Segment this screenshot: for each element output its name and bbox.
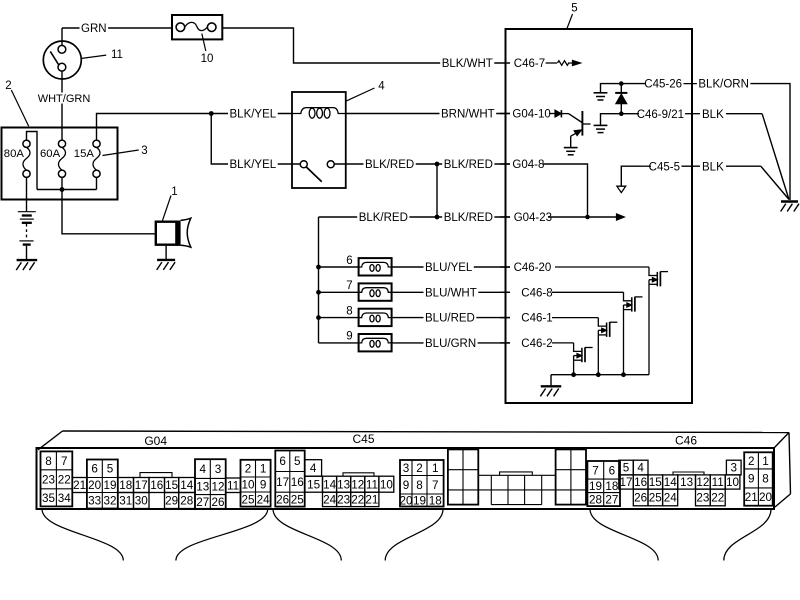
wire bus to injector 9	[319, 342, 359, 344]
svg-text:20: 20	[759, 491, 773, 504]
connector C46 pin 10	[725, 475, 740, 489]
label 11	[111, 49, 123, 61]
pin C45-26	[624, 79, 701, 91]
svg-text:8: 8	[45, 455, 52, 468]
svg-text:13: 13	[337, 478, 350, 491]
node rail junction C46-1	[596, 372, 601, 377]
svg-text:35: 35	[42, 492, 56, 505]
pin C46-9/21	[624, 109, 701, 121]
svg-text:2: 2	[5, 80, 11, 92]
pin C46-8	[500, 287, 624, 299]
transistor Q1	[569, 111, 591, 147]
label 3	[141, 145, 147, 157]
label C46	[675, 434, 697, 448]
svg-text:60A: 60A	[40, 148, 61, 160]
wire C45-5 stub	[621, 166, 641, 186]
connector C45 key tab	[343, 473, 374, 476]
connector C46 pin 11	[710, 475, 725, 489]
svg-text:BLU/RED: BLU/RED	[425, 313, 475, 325]
pin C46-20	[500, 262, 649, 274]
wire BLK/YEL (15A fuse to relay coil)	[97, 114, 293, 141]
connector C46 pin 22	[710, 489, 725, 506]
wire battery feed	[26, 177, 28, 211]
svg-text:9: 9	[748, 473, 755, 486]
svg-text:22: 22	[351, 494, 364, 507]
connector G04 pin 30	[134, 493, 150, 509]
label BLK/RED (ECU side lower)	[442, 211, 494, 224]
connector G04 pin 28	[179, 493, 195, 509]
svg-text:7: 7	[592, 464, 599, 477]
fuse 80A	[23, 140, 30, 177]
svg-text:4: 4	[310, 462, 317, 475]
label BLU/RED	[424, 312, 477, 325]
connector G04 key tab	[140, 473, 172, 478]
connector G04 pin 29	[165, 493, 179, 509]
svg-text:11: 11	[366, 478, 378, 491]
label 8	[346, 305, 352, 317]
svg-text:9: 9	[403, 479, 410, 492]
svg-text:25: 25	[291, 494, 305, 507]
label 60A	[40, 148, 61, 160]
connector G04 pin 17	[134, 478, 150, 493]
svg-text:16: 16	[150, 479, 163, 492]
fuse 10	[172, 15, 222, 39]
svg-text:2: 2	[245, 463, 252, 476]
svg-text:20: 20	[88, 479, 102, 492]
svg-text:26: 26	[276, 494, 289, 507]
label 7	[346, 280, 352, 292]
svg-text:80A: 80A	[4, 148, 25, 160]
svg-text:C45-5: C45-5	[649, 161, 680, 173]
ground (body, right)	[781, 202, 799, 212]
svg-text:22: 22	[711, 492, 724, 505]
connector C46 pin 5	[619, 460, 634, 475]
relay 4	[292, 92, 346, 188]
connector C46 pin 24	[663, 489, 678, 506]
wire G04 harness right tail	[176, 509, 268, 561]
connector C45 pin 22	[351, 492, 365, 506]
svg-text:BLK/RED: BLK/RED	[444, 212, 493, 224]
label WHT/GRN	[36, 93, 91, 106]
arrow (C46-7)	[573, 61, 581, 66]
injector 6	[359, 258, 392, 275]
svg-text:12: 12	[351, 478, 364, 491]
node C46-9/21 junction	[619, 111, 624, 116]
label 11 leader	[82, 55, 107, 58]
svg-text:11: 11	[227, 479, 239, 492]
connector C46 pin 25	[648, 489, 663, 506]
wire BLU/YEL (injector to ECU C46-20)	[392, 266, 510, 268]
svg-text:15: 15	[165, 479, 179, 492]
wire bus to injector 8	[319, 317, 359, 319]
connector blank block A	[448, 449, 478, 504]
fuse box 2	[2, 128, 118, 200]
svg-text:33: 33	[88, 495, 101, 508]
ignition switch 11	[43, 28, 81, 128]
svg-text:C46-7: C46-7	[514, 58, 545, 70]
wire BLU/WHT (injector to ECU C46-8)	[392, 291, 510, 293]
svg-text:15A: 15A	[74, 148, 95, 160]
svg-text:17: 17	[276, 476, 289, 489]
connector panel (3D slab)	[37, 431, 791, 509]
wire C45 harness left tail	[273, 509, 341, 561]
label BLK/RED (bus side)	[357, 211, 409, 224]
svg-text:32: 32	[103, 495, 116, 508]
svg-text:8: 8	[346, 305, 352, 317]
svg-text:13: 13	[196, 481, 209, 494]
svg-text:21: 21	[73, 479, 86, 492]
wire C45-26 ground hook	[601, 84, 622, 93]
svg-text:2: 2	[748, 455, 755, 468]
svg-text:7: 7	[346, 280, 352, 292]
label BRN/WHT	[440, 108, 497, 121]
connector blank block B	[556, 449, 586, 504]
svg-text:24: 24	[257, 494, 271, 507]
svg-text:18: 18	[605, 480, 618, 493]
svg-text:27: 27	[196, 496, 209, 509]
connector C46 block 7/6	[587, 461, 620, 507]
connector middle tie lines	[478, 475, 555, 490]
svg-text:18: 18	[429, 494, 442, 507]
svg-text:5: 5	[623, 462, 630, 475]
svg-text:BRN/WHT: BRN/WHT	[441, 109, 495, 121]
connector C46 pin 15	[648, 475, 663, 489]
label BLK/RED (ECU side upper)	[442, 158, 494, 171]
connector C46 key tab	[673, 472, 704, 475]
svg-text:11: 11	[111, 49, 123, 61]
node BLK/RED junction (lower)	[435, 215, 440, 220]
label C45	[352, 432, 374, 446]
svg-text:16: 16	[291, 476, 304, 489]
label 10	[201, 53, 214, 65]
label 15A	[74, 148, 95, 160]
wire bus to injector 7	[319, 291, 359, 293]
wire 60A to ignition (inside box)	[61, 128, 63, 141]
wire BLK/YEL (junction to relay switch)	[211, 114, 300, 165]
node rail junction C46-2	[571, 372, 576, 377]
svg-text:WHT/GRN: WHT/GRN	[38, 93, 91, 105]
wire 80A feed hook	[27, 132, 38, 190]
svg-text:19: 19	[589, 480, 602, 493]
label 3 leader	[103, 150, 139, 156]
connector C46 pin 3	[726, 460, 741, 475]
fuse 15A	[93, 140, 100, 177]
label BLU/YEL	[424, 261, 474, 274]
svg-text:9: 9	[346, 331, 352, 343]
svg-text:7: 7	[61, 455, 68, 468]
wire BLK/ORN (C45-26 to body ground)	[749, 84, 791, 200]
svg-text:C46-8: C46-8	[521, 287, 552, 299]
svg-text:14: 14	[323, 478, 337, 491]
svg-text:28: 28	[180, 495, 193, 508]
node fuse box junction	[60, 187, 65, 192]
pin C46-7	[514, 58, 557, 70]
svg-text:26: 26	[211, 496, 224, 509]
svg-text:1: 1	[432, 462, 439, 475]
diode D1 (clamp)	[615, 84, 627, 114]
injector 8	[359, 309, 392, 326]
label 1 leader	[163, 196, 172, 221]
wire fuse box bottom rail	[37, 177, 97, 189]
wire BRN/WHT (relay coil to ECU G04-10)	[346, 113, 510, 115]
wire BLK/RED (relay switch to ECU G04-8)	[334, 163, 510, 165]
svg-text:5: 5	[571, 3, 577, 15]
wire MOSFET source rail	[551, 374, 649, 376]
connector C45 block 6/5	[275, 451, 304, 507]
svg-text:21: 21	[745, 491, 758, 504]
fuse 60A	[58, 140, 65, 177]
connector G04 pin 31	[118, 493, 134, 509]
label BLK/YEL (lower)	[228, 158, 278, 171]
node C45-26 junction	[619, 81, 624, 86]
wire horn ground	[165, 246, 167, 259]
relay coil	[292, 108, 346, 119]
battery	[18, 212, 36, 259]
svg-text:10: 10	[726, 476, 740, 489]
label G04	[144, 434, 167, 448]
wire injector supply bus	[318, 217, 320, 343]
label BLK (upper)	[701, 108, 726, 121]
ground (horn)	[157, 260, 175, 270]
svg-text:25: 25	[649, 492, 663, 505]
svg-text:18: 18	[119, 479, 132, 492]
svg-text:C46: C46	[675, 434, 697, 448]
label BLK (lower)	[701, 160, 726, 173]
wire C45 harness right tail	[385, 509, 443, 561]
connector G04 block 4/3	[195, 459, 226, 509]
pin C46-2	[500, 338, 574, 350]
pin G04-8	[500, 159, 544, 171]
svg-text:22: 22	[58, 474, 71, 487]
svg-text:23: 23	[696, 492, 709, 505]
MOSFET Q3 (C46-8 driver)	[624, 292, 643, 374]
wire C46 harness left tail	[590, 509, 658, 561]
node BLK/YEL junction	[209, 111, 214, 116]
connector middle cells	[491, 475, 541, 504]
svg-text:C46-1: C46-1	[521, 313, 552, 325]
wire G04-8 to G04-23 link	[543, 164, 588, 217]
node G04-23 junction	[585, 215, 590, 220]
svg-text:BLK/RED: BLK/RED	[359, 212, 408, 224]
label 4	[378, 81, 385, 93]
horn 1	[156, 218, 191, 247]
svg-text:2: 2	[416, 462, 423, 475]
wire rail ground stub	[550, 375, 552, 386]
MOSFET Q4 (C46-1 driver)	[598, 318, 617, 375]
connector G04 pin 21	[72, 478, 87, 493]
connector G04 pin 11	[226, 478, 241, 493]
connector C46 pin 16	[633, 475, 648, 489]
connector C45 pin 14	[323, 476, 337, 492]
svg-text:BLK/YEL: BLK/YEL	[230, 159, 277, 171]
label BLK/ORN	[697, 78, 751, 91]
wire C46 harness right tail	[724, 509, 771, 561]
svg-text:9: 9	[260, 479, 267, 492]
connector C45 pin 11	[365, 476, 379, 492]
svg-text:24: 24	[664, 492, 678, 505]
svg-text:23: 23	[42, 474, 55, 487]
svg-text:C46-2: C46-2	[521, 338, 552, 350]
connector C46 pin 17	[619, 475, 634, 489]
svg-text:4: 4	[637, 462, 644, 475]
svg-text:GRN: GRN	[81, 23, 107, 35]
connector C45 pin 10	[379, 476, 394, 492]
label BLU/WHT	[424, 287, 479, 300]
connector C45 pin 13	[337, 476, 351, 492]
wire horn feed BLK	[62, 190, 155, 234]
svg-text:BLU/YEL: BLU/YEL	[425, 262, 473, 274]
wire BLK (C46-9/21 to body ground)	[726, 114, 789, 199]
svg-text:7: 7	[432, 479, 439, 492]
svg-text:1: 1	[260, 463, 267, 476]
injector 7	[359, 283, 392, 300]
ground (Q1 emitter)	[564, 148, 578, 155]
svg-text:1: 1	[171, 186, 177, 198]
wire BLK/WHT (fuse 10 to ECU C46-7)	[222, 28, 510, 63]
wire bus to injector 6	[319, 266, 359, 268]
node rail junction C46-8	[621, 372, 626, 377]
connector C46 block 2/1	[744, 452, 773, 505]
label 5 leader	[567, 14, 573, 29]
svg-text:6: 6	[91, 463, 98, 476]
svg-text:23: 23	[337, 494, 350, 507]
wire C46-9/21 ground hook	[601, 114, 622, 125]
svg-text:1: 1	[762, 455, 769, 468]
connector G04 block 6/5	[87, 460, 118, 509]
connector middle key tab	[500, 472, 533, 475]
connector C45 pin 21	[365, 492, 379, 506]
svg-text:17: 17	[619, 476, 632, 489]
pin G04-23	[500, 212, 588, 224]
wire G04 harness left tail	[42, 509, 123, 561]
ground (C45-26)	[594, 93, 608, 100]
ECU box 5	[506, 29, 693, 403]
connector G04 pin 18	[118, 478, 134, 493]
svg-text:15: 15	[649, 476, 663, 489]
svg-text:BLK/RED: BLK/RED	[365, 159, 414, 171]
connector G04 pin 16	[149, 478, 165, 493]
wire G04-23 arrow line	[588, 216, 618, 218]
svg-text:11: 11	[712, 476, 724, 489]
connector C46 pin 4	[633, 460, 648, 475]
svg-text:19: 19	[103, 479, 116, 492]
connector G04 pin 15	[165, 478, 179, 493]
svg-text:8: 8	[416, 479, 423, 492]
svg-text:C46-9/21: C46-9/21	[637, 109, 684, 121]
connector G04 pin 14	[179, 478, 195, 493]
label 6	[346, 255, 352, 267]
node BLK/RED junction (upper)	[435, 162, 440, 167]
svg-text:14: 14	[180, 479, 194, 492]
label 5	[571, 3, 577, 15]
connector G04 block 2/1	[241, 460, 271, 507]
svg-text:28: 28	[589, 494, 602, 507]
svg-text:25: 25	[241, 494, 255, 507]
svg-text:4: 4	[199, 463, 206, 476]
ground (ECU drivers)	[540, 386, 561, 396]
svg-text:8: 8	[762, 473, 769, 486]
label BLU/GRN	[424, 337, 478, 350]
connector C45 pin 23	[337, 492, 351, 506]
connector C45 pin 24	[323, 492, 337, 506]
svg-text:29: 29	[165, 495, 178, 508]
svg-text:12: 12	[696, 476, 709, 489]
svg-text:12: 12	[211, 481, 224, 494]
node bus junction 6	[316, 265, 321, 270]
label BLK/YEL (upper)	[228, 108, 278, 121]
svg-text:19: 19	[413, 494, 426, 507]
wire BLU/RED (injector to ECU C46-1)	[392, 317, 510, 319]
relay switch	[300, 161, 334, 182]
label 4 leader	[346, 88, 375, 101]
svg-text:6: 6	[279, 455, 286, 468]
label 10 leader	[202, 34, 206, 52]
svg-text:6: 6	[609, 464, 616, 477]
label 9	[346, 331, 352, 343]
svg-text:3: 3	[403, 462, 410, 475]
diode D2 (base)	[555, 110, 569, 117]
arrow (G04-23)	[617, 214, 625, 220]
pin G04-10	[500, 109, 555, 121]
svg-text:BLK/YEL: BLK/YEL	[230, 109, 277, 121]
label 2	[5, 80, 11, 92]
node bus junction 7	[316, 290, 321, 295]
svg-text:C45-26: C45-26	[644, 79, 682, 91]
connector C45 pin 4	[305, 460, 322, 477]
wire BLU/GRN (injector to ECU C46-2)	[392, 342, 510, 344]
connector C45 pin 15	[305, 476, 323, 492]
svg-text:30: 30	[135, 495, 149, 508]
svg-text:C45: C45	[352, 432, 374, 446]
label BLK/WHT	[440, 57, 494, 70]
svg-text:G04: G04	[144, 434, 167, 448]
MOSFET Q5 (C46-2 driver)	[574, 343, 593, 375]
label GRN	[80, 22, 109, 35]
connector G04 block 8/7	[41, 451, 73, 506]
ground (C46-9/21)	[594, 125, 608, 132]
pin C45-5	[641, 161, 700, 173]
connector C46 pin 26	[633, 489, 648, 506]
svg-text:G04-23: G04-23	[514, 212, 552, 224]
connector C46 pin 14	[663, 475, 678, 489]
wire BLK/RED link	[436, 164, 438, 217]
svg-text:G04-10: G04-10	[512, 109, 550, 121]
connector C46 pin 12	[696, 475, 711, 489]
connector C45 block 3/2/1	[399, 460, 443, 507]
svg-text:34: 34	[58, 492, 72, 505]
connector C46 pin 23	[696, 489, 711, 506]
label 1	[171, 186, 177, 198]
svg-text:4: 4	[378, 81, 385, 93]
label 2 leader	[11, 90, 28, 126]
svg-text:BLK/RED: BLK/RED	[444, 159, 493, 171]
open arrow (C45-5)	[617, 186, 626, 192]
svg-text:17: 17	[135, 479, 148, 492]
svg-text:5: 5	[294, 455, 301, 468]
svg-text:BLK/ORN: BLK/ORN	[698, 79, 749, 91]
svg-text:BLU/WHT: BLU/WHT	[425, 287, 477, 299]
ground (battery)	[16, 260, 37, 270]
svg-text:31: 31	[119, 495, 132, 508]
connector C46 pin 13	[678, 475, 696, 489]
svg-text:15: 15	[307, 478, 321, 491]
svg-text:10: 10	[201, 53, 214, 65]
svg-text:27: 27	[605, 494, 618, 507]
node bus junction 8	[316, 315, 321, 320]
svg-text:21: 21	[365, 494, 378, 507]
wire BLK (C45-5 to body ground)	[726, 166, 789, 199]
wire BLK/RED (injector bus to ECU G04-23)	[319, 216, 511, 218]
